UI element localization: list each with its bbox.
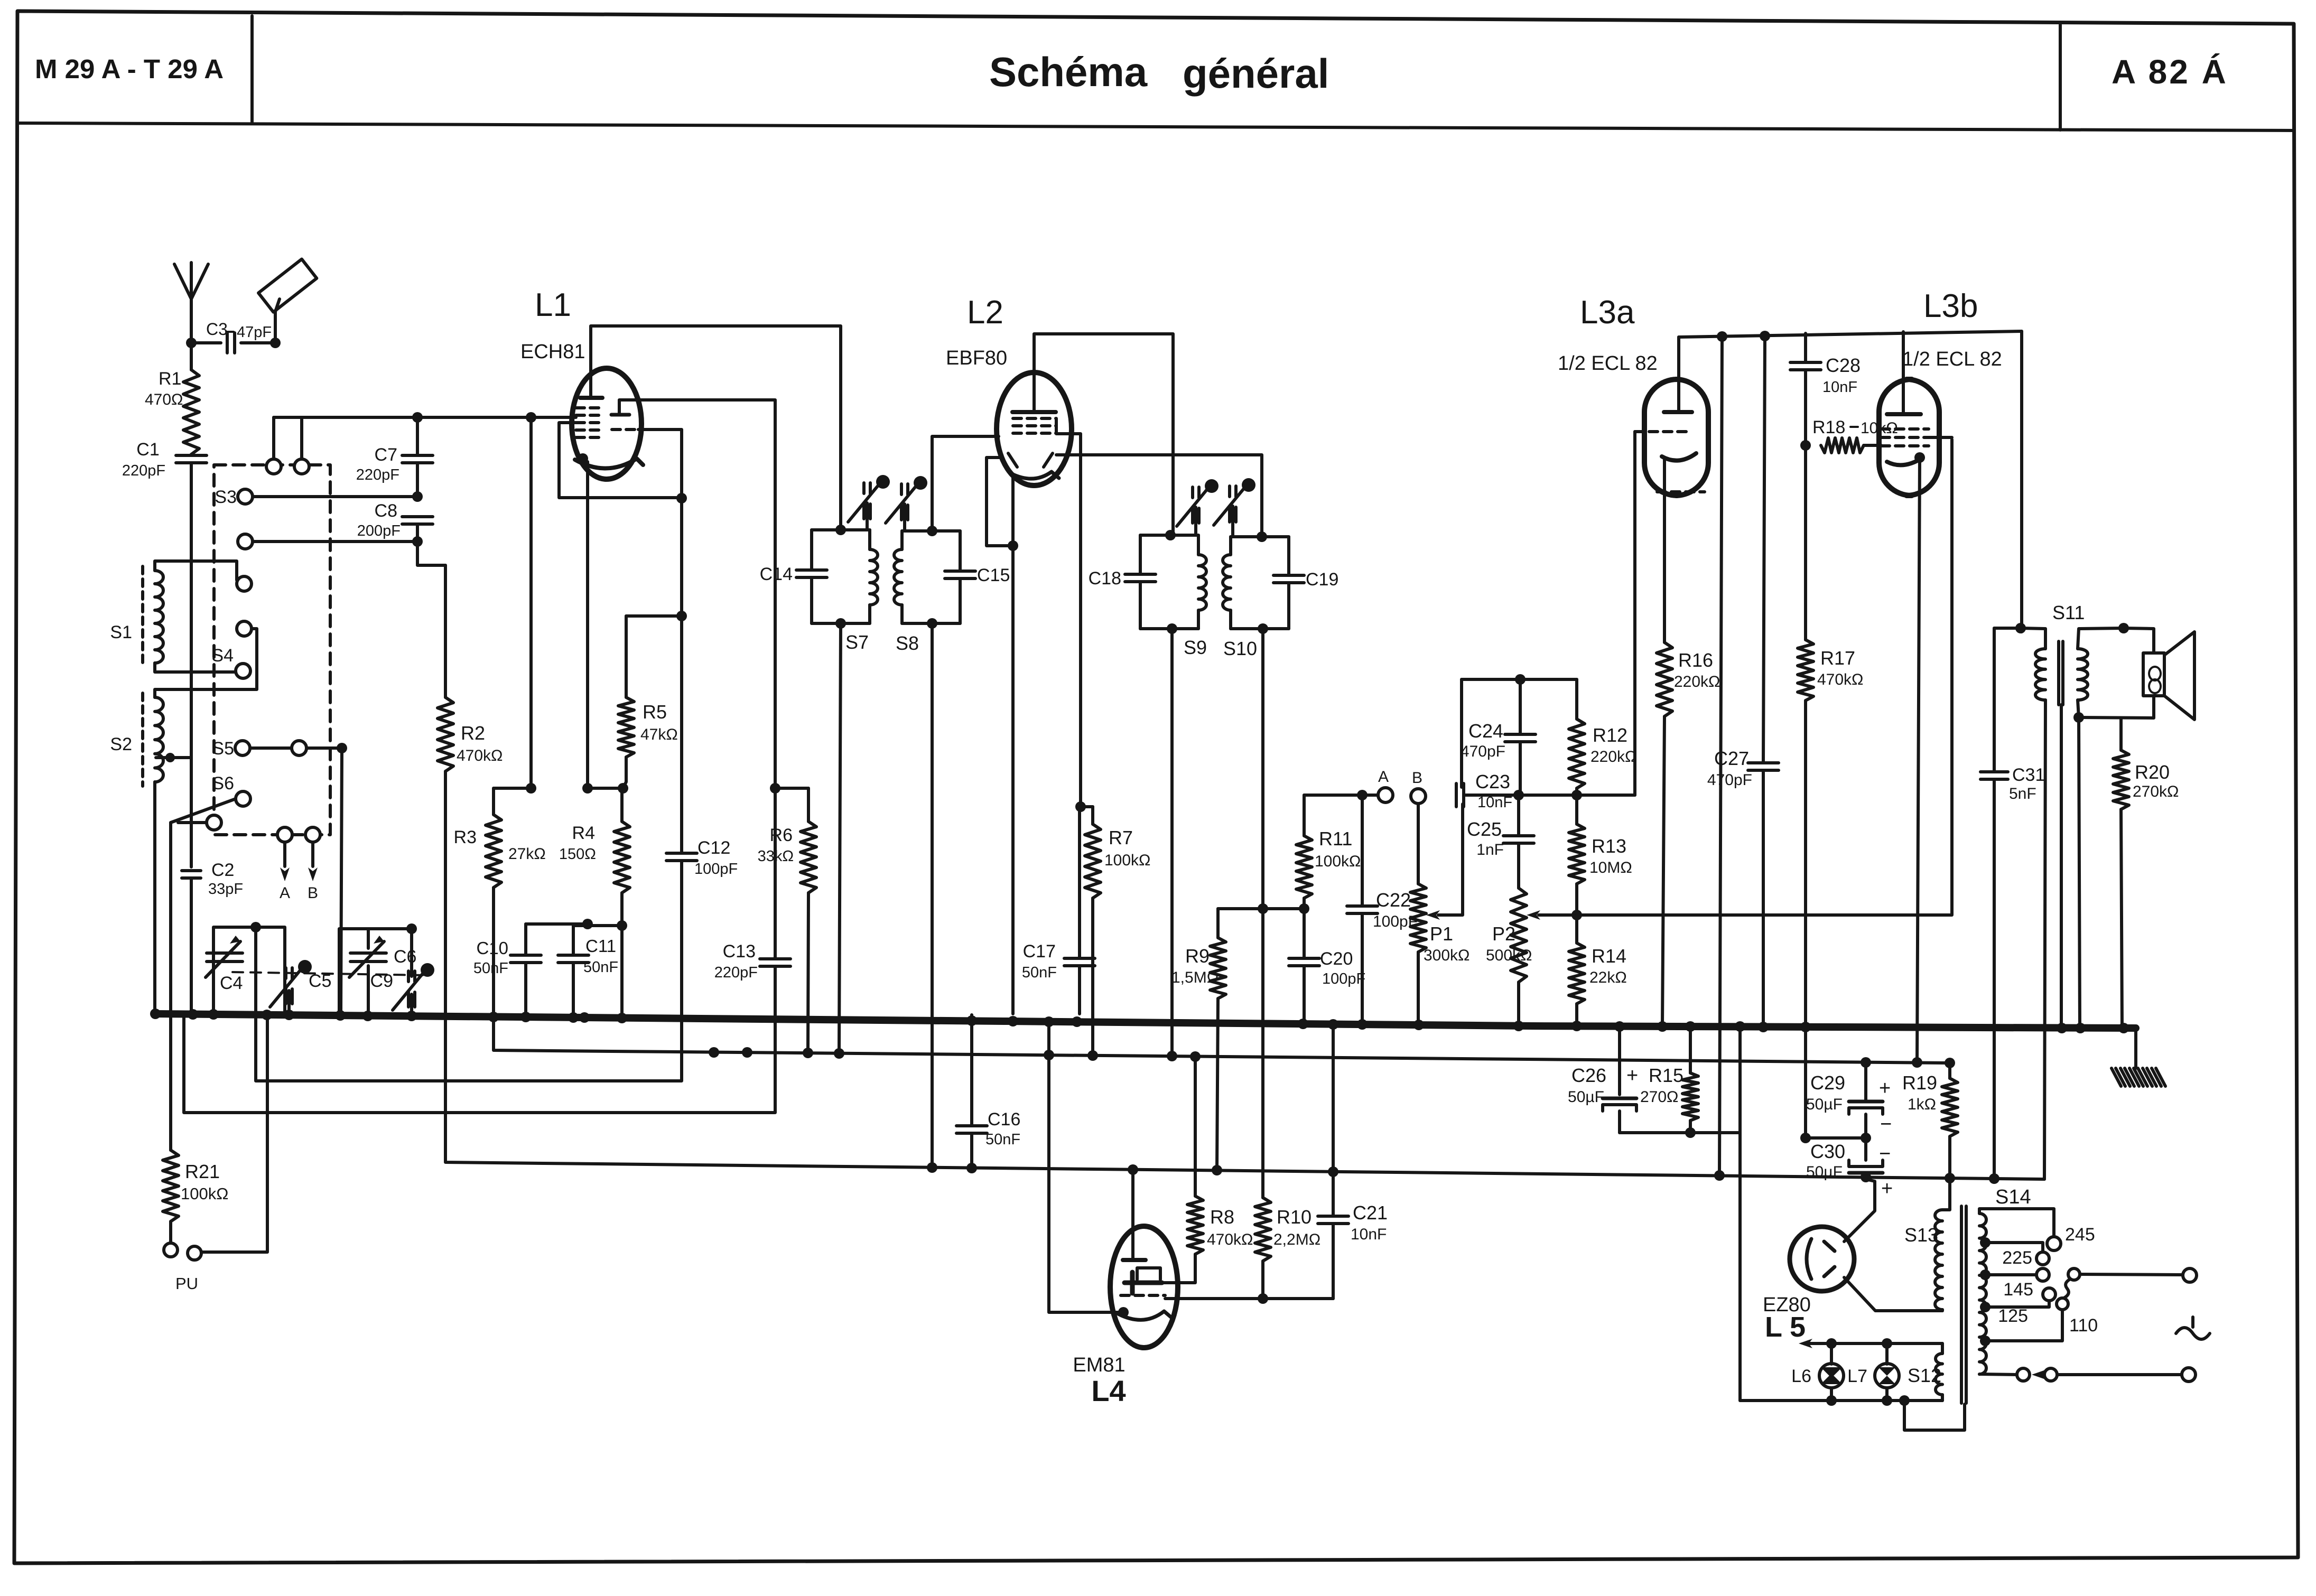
svg-text:245: 245	[2065, 1225, 2095, 1245]
switch contact S6b	[207, 815, 221, 830]
svg-text:50µF: 50µF	[1806, 1163, 1843, 1181]
svg-text:S4: S4	[211, 646, 234, 666]
primary coil S13	[1935, 1210, 1942, 1310]
svg-text:L1: L1	[535, 287, 571, 323]
svg-text:C7: C7	[375, 445, 397, 465]
switch contact S5b	[292, 741, 306, 755]
svg-text:C17: C17	[1023, 941, 1056, 962]
node IF1 primary top	[835, 525, 846, 535]
svg-text:C13: C13	[723, 941, 756, 962]
wire R9 top row	[1218, 907, 1304, 910]
wire grid feed	[272, 417, 275, 459]
svg-text:B: B	[308, 884, 318, 902]
node C8 bottom junction	[412, 536, 423, 547]
wire contact to S2	[155, 629, 257, 697]
svg-text:27kΩ: 27kΩ	[508, 845, 546, 863]
capacitor C22	[1361, 795, 1364, 906]
switch contact box top right	[294, 459, 309, 474]
node top rail 2	[1760, 331, 1770, 341]
svg-text:M 29 A - T 29 A: M 29 A - T 29 A	[35, 54, 224, 84]
node C25 top	[1513, 790, 1524, 800]
node grid R10 junction	[1258, 1293, 1268, 1304]
switch contact box top left	[266, 459, 281, 474]
svg-text:L3b: L3b	[1923, 288, 1978, 324]
variable capacitor C4	[207, 951, 243, 955]
secondary coil S14	[1979, 1214, 1986, 1374]
wire S8 down	[931, 623, 934, 1168]
wire core down	[2060, 705, 2063, 1029]
ground bus wire	[155, 1014, 2136, 1028]
capacitor C1	[190, 454, 193, 455]
EZ80 plate top	[1824, 1242, 1835, 1251]
wire L3a cathode down	[1663, 458, 1666, 642]
svg-text:R10: R10	[1277, 1206, 1312, 1228]
wire ECH81 grid2 to R6 column	[619, 400, 775, 788]
IF1 primary frame	[812, 528, 870, 531]
wire mains bottom	[2057, 1373, 2182, 1376]
wire tap 110	[1985, 1310, 2062, 1341]
node IF1 secondary top	[927, 526, 937, 536]
svg-text:R12: R12	[1593, 724, 1627, 746]
wire selector to mains	[2080, 1274, 2183, 1275]
potentiometer P2	[1511, 888, 1527, 982]
svg-text:220pF: 220pF	[122, 462, 165, 479]
svg-text:+: +	[1881, 1178, 1893, 1200]
ECH81 cathode arc	[575, 459, 643, 469]
capacitor C3	[191, 341, 221, 344]
svg-text:100kΩ: 100kΩ	[181, 1184, 228, 1203]
svg-text:5nF: 5nF	[2009, 785, 2036, 802]
C24 R12 top rail	[1462, 678, 1577, 681]
IF2 secondary frame	[1231, 535, 1289, 538]
EZ80 plate bottom	[1824, 1267, 1835, 1276]
coil S10	[1229, 537, 1232, 555]
L3a grid dashes	[1635, 430, 1691, 433]
trimmer capacitor C5	[284, 968, 287, 978]
svg-text:C2: C2	[211, 860, 234, 880]
capacitor C31	[1993, 628, 1996, 772]
terminal bottom left	[2017, 1368, 2030, 1381]
svg-text:S9: S9	[1184, 637, 1207, 658]
node IF2 secondary top	[1257, 531, 1267, 542]
node IF1 primary bottom	[835, 618, 846, 629]
band switch dashed box	[214, 465, 330, 835]
EM81 cathode dot	[1118, 1307, 1129, 1318]
title block divider line	[17, 123, 2294, 130]
wire L3a anode up	[1677, 337, 1680, 412]
coil S2	[155, 697, 163, 782]
svg-text:C26: C26	[1571, 1065, 1606, 1086]
wire S9 down	[1170, 629, 1174, 1056]
tube L3b	[1879, 379, 1939, 496]
wire secondary top	[2078, 628, 2124, 649]
svg-text:S11: S11	[2052, 602, 2085, 623]
svg-text:C9: C9	[370, 971, 393, 991]
svg-text:R17: R17	[1820, 647, 1855, 669]
node top rail 1	[1717, 331, 1727, 342]
resistor R21	[169, 823, 172, 1150]
wire ECH81 grid1 loop	[559, 423, 682, 498]
capacitor C20	[1289, 957, 1319, 960]
node secondary bottom	[2073, 712, 2084, 723]
capacitor C30	[1864, 1138, 1867, 1160]
svg-text:L 5: L 5	[1765, 1311, 1806, 1343]
svg-text:A: A	[280, 884, 290, 902]
selector flex wire	[2064, 1279, 2070, 1298]
svg-text:R21: R21	[185, 1161, 220, 1182]
trimmer IF1 primary	[862, 483, 866, 493]
svg-text:470Ω: 470Ω	[145, 391, 183, 408]
svg-text:1,5MΩ: 1,5MΩ	[1171, 969, 1219, 986]
node C24 top	[1515, 674, 1526, 685]
B+ line junction dots	[927, 1162, 937, 1173]
svg-text:33pF: 33pF	[208, 881, 243, 898]
svg-text:C12: C12	[697, 838, 730, 858]
svg-text:R15: R15	[1649, 1065, 1683, 1086]
svg-text:100kΩ: 100kΩ	[1104, 852, 1150, 869]
wire ECH81 anode to IF1	[591, 326, 841, 530]
node R18 left	[1800, 440, 1811, 451]
svg-text:−: −	[1880, 1113, 1892, 1135]
terminal PU left	[164, 1243, 178, 1257]
top rail L3	[1679, 331, 2022, 337]
resistor R18	[1821, 438, 1864, 453]
wire EM81 grid top	[1131, 1170, 1134, 1260]
resistor R13	[1575, 795, 1578, 824]
ECH81 anode bar	[580, 396, 602, 400]
tube L3a	[1644, 379, 1708, 496]
wire S1 bottom to S4	[155, 663, 236, 672]
svg-text:C30: C30	[1810, 1141, 1845, 1162]
node R5 top junction	[676, 611, 687, 621]
svg-text:10nF: 10nF	[1477, 794, 1512, 811]
capacitor C11	[572, 926, 575, 955]
terminal B	[1411, 789, 1426, 804]
wire L1 frame	[529, 417, 533, 788]
EBF80 diode plate left	[1008, 453, 1017, 467]
svg-text:10MΩ: 10MΩ	[1589, 859, 1632, 876]
wire ECH81 cathode down	[586, 462, 589, 788]
capacitor C2	[182, 869, 201, 872]
EBF80 anode bar	[1012, 410, 1056, 414]
svg-text:220kΩ: 220kΩ	[1590, 748, 1636, 766]
wire R6 top	[775, 787, 808, 790]
L3b grid rows	[1881, 427, 1929, 431]
mains terminal bottom	[2182, 1368, 2196, 1382]
svg-text:R18: R18	[1812, 417, 1845, 437]
wire R17 below bus	[1804, 1027, 1807, 1138]
svg-text:R13: R13	[1592, 835, 1626, 857]
svg-text:33kΩ: 33kΩ	[758, 848, 794, 865]
coil S7	[868, 530, 871, 549]
EBF80 grid rows	[1013, 417, 1056, 420]
EBF80 diode plate right	[1044, 453, 1053, 467]
svg-text:C18: C18	[1089, 568, 1121, 589]
wire EZ80 to S13	[1844, 1277, 1942, 1311]
wire C24 frame left	[1460, 679, 1463, 787]
EM81 dash row	[1121, 1294, 1165, 1297]
node C29 C30 junction	[1861, 1133, 1871, 1143]
wire arrow B	[311, 842, 314, 866]
ECH81 grid3 dashed bar	[612, 428, 638, 431]
svg-text:L4: L4	[1091, 1374, 1126, 1407]
wire R5 top	[626, 614, 682, 618]
wire osc column	[680, 498, 683, 852]
terminal 145	[2036, 1268, 2049, 1281]
ECH81 grid rows	[576, 406, 603, 409]
wire tap 125	[1985, 1301, 2049, 1307]
resistor R14	[1575, 915, 1578, 943]
svg-text:S14: S14	[1995, 1186, 2031, 1208]
wire arrow A	[283, 842, 286, 866]
switch contact box bottom A	[277, 827, 292, 842]
svg-text:C23: C23	[1475, 771, 1510, 792]
svg-text:470pF: 470pF	[1461, 743, 1505, 760]
svg-text:C14: C14	[760, 564, 793, 584]
node IF2 primary top	[1165, 530, 1176, 540]
mains terminal top	[2183, 1268, 2197, 1282]
node R4 top	[618, 783, 628, 794]
voltage selector upper contact	[2068, 1268, 2080, 1280]
node osc junction	[676, 493, 687, 503]
svg-text:R8: R8	[1210, 1206, 1234, 1228]
line C wire	[184, 968, 775, 1113]
svg-text:R19: R19	[1902, 1072, 1937, 1094]
output transformer secondary	[2078, 649, 2088, 700]
svg-text:1/2 ECL 82: 1/2 ECL 82	[1558, 352, 1658, 375]
wire S2 tap	[156, 756, 191, 759]
line B wire	[256, 874, 682, 1081]
wire screen feed	[1719, 337, 1722, 1175]
node frame junction	[270, 338, 281, 348]
svg-text:50µF: 50µF	[1568, 1088, 1604, 1106]
resistor R7	[1081, 805, 1093, 808]
capacitor C10	[524, 924, 527, 955]
svg-text:EM81: EM81	[1073, 1354, 1125, 1376]
wire EBF80 diode out	[1056, 455, 1262, 537]
P1 wiper	[1426, 910, 1440, 920]
capacitor C18	[1125, 573, 1156, 576]
AVC line wire	[494, 1014, 1950, 1063]
resistor R19	[1948, 1063, 1951, 1078]
trimmer IF2 secondary	[1228, 486, 1231, 497]
wire L3b anode up	[1902, 332, 1905, 414]
wire tap 245	[1979, 1209, 2054, 1237]
svg-text:S3: S3	[215, 487, 237, 507]
title block left divider	[250, 16, 254, 122]
wire B+ to S13	[1942, 1178, 1950, 1210]
svg-text:S6: S6	[212, 773, 234, 794]
node tap 125	[1980, 1302, 1991, 1312]
lamp L7	[1885, 1343, 1889, 1364]
svg-text:300kΩ: 300kΩ	[1424, 947, 1469, 964]
B+ line wire	[445, 771, 2044, 1179]
svg-text:C27: C27	[1714, 748, 1749, 769]
svg-text:C4: C4	[220, 973, 243, 993]
terminal A	[1378, 788, 1393, 802]
svg-text:R14: R14	[1592, 945, 1626, 967]
node C9 top	[406, 923, 417, 934]
capacitor C19	[1273, 574, 1304, 577]
ground bus drop wire	[2134, 1028, 2137, 1068]
svg-text:10nF: 10nF	[1351, 1226, 1387, 1243]
coil S1	[155, 571, 163, 663]
svg-text:B: B	[1412, 769, 1422, 787]
resistor R10	[1255, 1198, 1271, 1261]
output transformer primary	[2035, 649, 2045, 700]
svg-text:PU: PU	[175, 1274, 198, 1293]
wire S10 down	[1261, 629, 1264, 1198]
svg-text:C29: C29	[1810, 1072, 1845, 1094]
lamp row bottom	[1740, 1399, 1942, 1402]
svg-text:P1: P1	[1430, 923, 1453, 945]
switch contact mid	[237, 621, 252, 636]
wire EM81 cathode out	[1049, 1021, 1123, 1312]
svg-text:50nF: 50nF	[583, 959, 618, 976]
resistor R16	[1657, 642, 1672, 716]
trimmer capacitor C9	[410, 929, 413, 976]
wire EBF80 cathode down	[1011, 474, 1015, 546]
capacitor C27	[1763, 336, 1765, 762]
svg-text:R3: R3	[454, 827, 477, 847]
node R7 C17 junction	[1075, 801, 1086, 812]
wire S3 to C8	[253, 495, 417, 498]
svg-text:C10: C10	[476, 938, 508, 958]
svg-text:S10: S10	[1223, 638, 1257, 659]
svg-text:125: 125	[1998, 1306, 2028, 1326]
node speaker top	[2118, 623, 2129, 633]
wire cathode row	[588, 787, 623, 790]
L3b cathode dot	[1914, 452, 1925, 463]
svg-text:50nF: 50nF	[1022, 964, 1057, 981]
wire primary down	[2044, 700, 2045, 1179]
wire speaker top	[2124, 628, 2154, 653]
wire L3b screen out	[1929, 436, 1952, 439]
svg-text:R7: R7	[1109, 827, 1133, 848]
svg-text:+: +	[1879, 1077, 1891, 1099]
svg-text:47kΩ: 47kΩ	[640, 726, 678, 743]
tube EM81	[1110, 1226, 1178, 1348]
node L1 frame bottom	[526, 783, 536, 794]
wire S12 return	[1904, 1401, 1965, 1430]
svg-text:C28: C28	[1826, 354, 1861, 376]
L3b cathode arc	[1887, 458, 1923, 465]
wire arrow link	[2032, 1370, 2045, 1379]
L3a bottom dashes	[1657, 490, 1705, 493]
node AB junction	[1357, 790, 1368, 800]
wire EBF80 cathode loop	[987, 458, 1013, 546]
resistor R20	[2119, 718, 2123, 750]
node R13 top	[1571, 790, 1582, 800]
svg-text:C24: C24	[1468, 720, 1503, 742]
tube EZ80	[1790, 1227, 1854, 1291]
svg-text:1kΩ: 1kΩ	[1908, 1096, 1936, 1113]
svg-text:A: A	[1378, 768, 1389, 786]
svg-text:S5: S5	[212, 739, 234, 759]
svg-text:S8: S8	[896, 632, 919, 654]
svg-text:R5: R5	[643, 701, 667, 723]
svg-text:470pF: 470pF	[1707, 771, 1752, 789]
coil S8	[900, 531, 904, 549]
node antenna junction	[186, 338, 197, 348]
variable capacitor C6	[350, 951, 386, 955]
svg-text:50nF: 50nF	[473, 960, 508, 977]
svg-text:470kΩ: 470kΩ	[1817, 671, 1863, 688]
heater coil S12	[1941, 1343, 1944, 1354]
wire EM81 grid right	[1165, 1297, 1333, 1300]
svg-text:200pF: 200pF	[357, 522, 401, 539]
ECH81 cathode dot	[578, 453, 588, 464]
svg-text:C3: C3	[206, 320, 228, 339]
wire C10 top	[526, 922, 588, 926]
svg-text:C1: C1	[136, 440, 159, 460]
svg-text:R20: R20	[2135, 761, 2170, 783]
EM81 target electrode	[1124, 1281, 1162, 1285]
svg-text:L6: L6	[1791, 1366, 1811, 1386]
svg-text:L3a: L3a	[1580, 294, 1635, 331]
svg-text:225: 225	[2002, 1248, 2032, 1268]
svg-text:470kΩ: 470kΩ	[457, 747, 503, 764]
node output transformer top	[2015, 623, 2026, 633]
svg-text:−: −	[1879, 1143, 1891, 1165]
switch contact S3	[238, 489, 253, 504]
svg-text:P2: P2	[1492, 923, 1515, 945]
svg-text:S1: S1	[110, 622, 132, 642]
voltage selector lower contact	[2057, 1298, 2068, 1310]
coil S9	[1197, 535, 1200, 555]
svg-text:150Ω: 150Ω	[559, 846, 596, 863]
tube EBF80	[997, 372, 1072, 486]
svg-text:ECH81: ECH81	[520, 341, 585, 363]
svg-text:100pF: 100pF	[1322, 970, 1365, 987]
svg-text:270Ω: 270Ω	[1640, 1088, 1678, 1106]
frame aerial symbol	[258, 259, 317, 312]
svg-text:EBF80: EBF80	[946, 347, 1007, 369]
svg-text:R2: R2	[461, 722, 485, 744]
resistor R6	[807, 788, 810, 822]
svg-text:+: +	[1626, 1065, 1638, 1087]
L3a cathode arc	[1662, 453, 1696, 461]
node tap 145	[1980, 1270, 1991, 1280]
svg-text:1/2 ECL 82: 1/2 ECL 82	[1902, 348, 2002, 370]
wire PU column	[202, 1014, 267, 1252]
svg-text:S7: S7	[845, 631, 869, 653]
wire secondary bottom	[2078, 696, 2154, 718]
terminal PU right	[188, 1246, 201, 1260]
svg-text:C15: C15	[977, 565, 1010, 585]
svg-text:L7: L7	[1847, 1366, 1867, 1386]
svg-text:C11: C11	[585, 936, 616, 956]
svg-text:22kΩ: 22kΩ	[1589, 969, 1627, 986]
switch contact S6	[236, 791, 250, 806]
wire S1 top to contact	[155, 561, 237, 580]
wire contact to C8	[253, 540, 417, 543]
wire C11 top	[573, 924, 622, 927]
title block right divider	[2059, 25, 2062, 130]
capacitor C16	[970, 1015, 973, 1126]
resistor R2	[444, 565, 447, 697]
svg-text:R4: R4	[572, 823, 595, 843]
capacitor C15	[945, 570, 975, 573]
capacitor C25	[1517, 795, 1520, 836]
terminal 225	[2036, 1252, 2049, 1265]
node L1 frame top	[526, 412, 536, 423]
wire EBF80 anode to IF2	[1034, 334, 1173, 535]
wire S8 to EBF80 grid	[932, 436, 999, 531]
svg-text:270kΩ: 270kΩ	[2133, 783, 2179, 800]
svg-text:2,2MΩ: 2,2MΩ	[1273, 1231, 1320, 1248]
svg-text:C21: C21	[1353, 1202, 1388, 1224]
